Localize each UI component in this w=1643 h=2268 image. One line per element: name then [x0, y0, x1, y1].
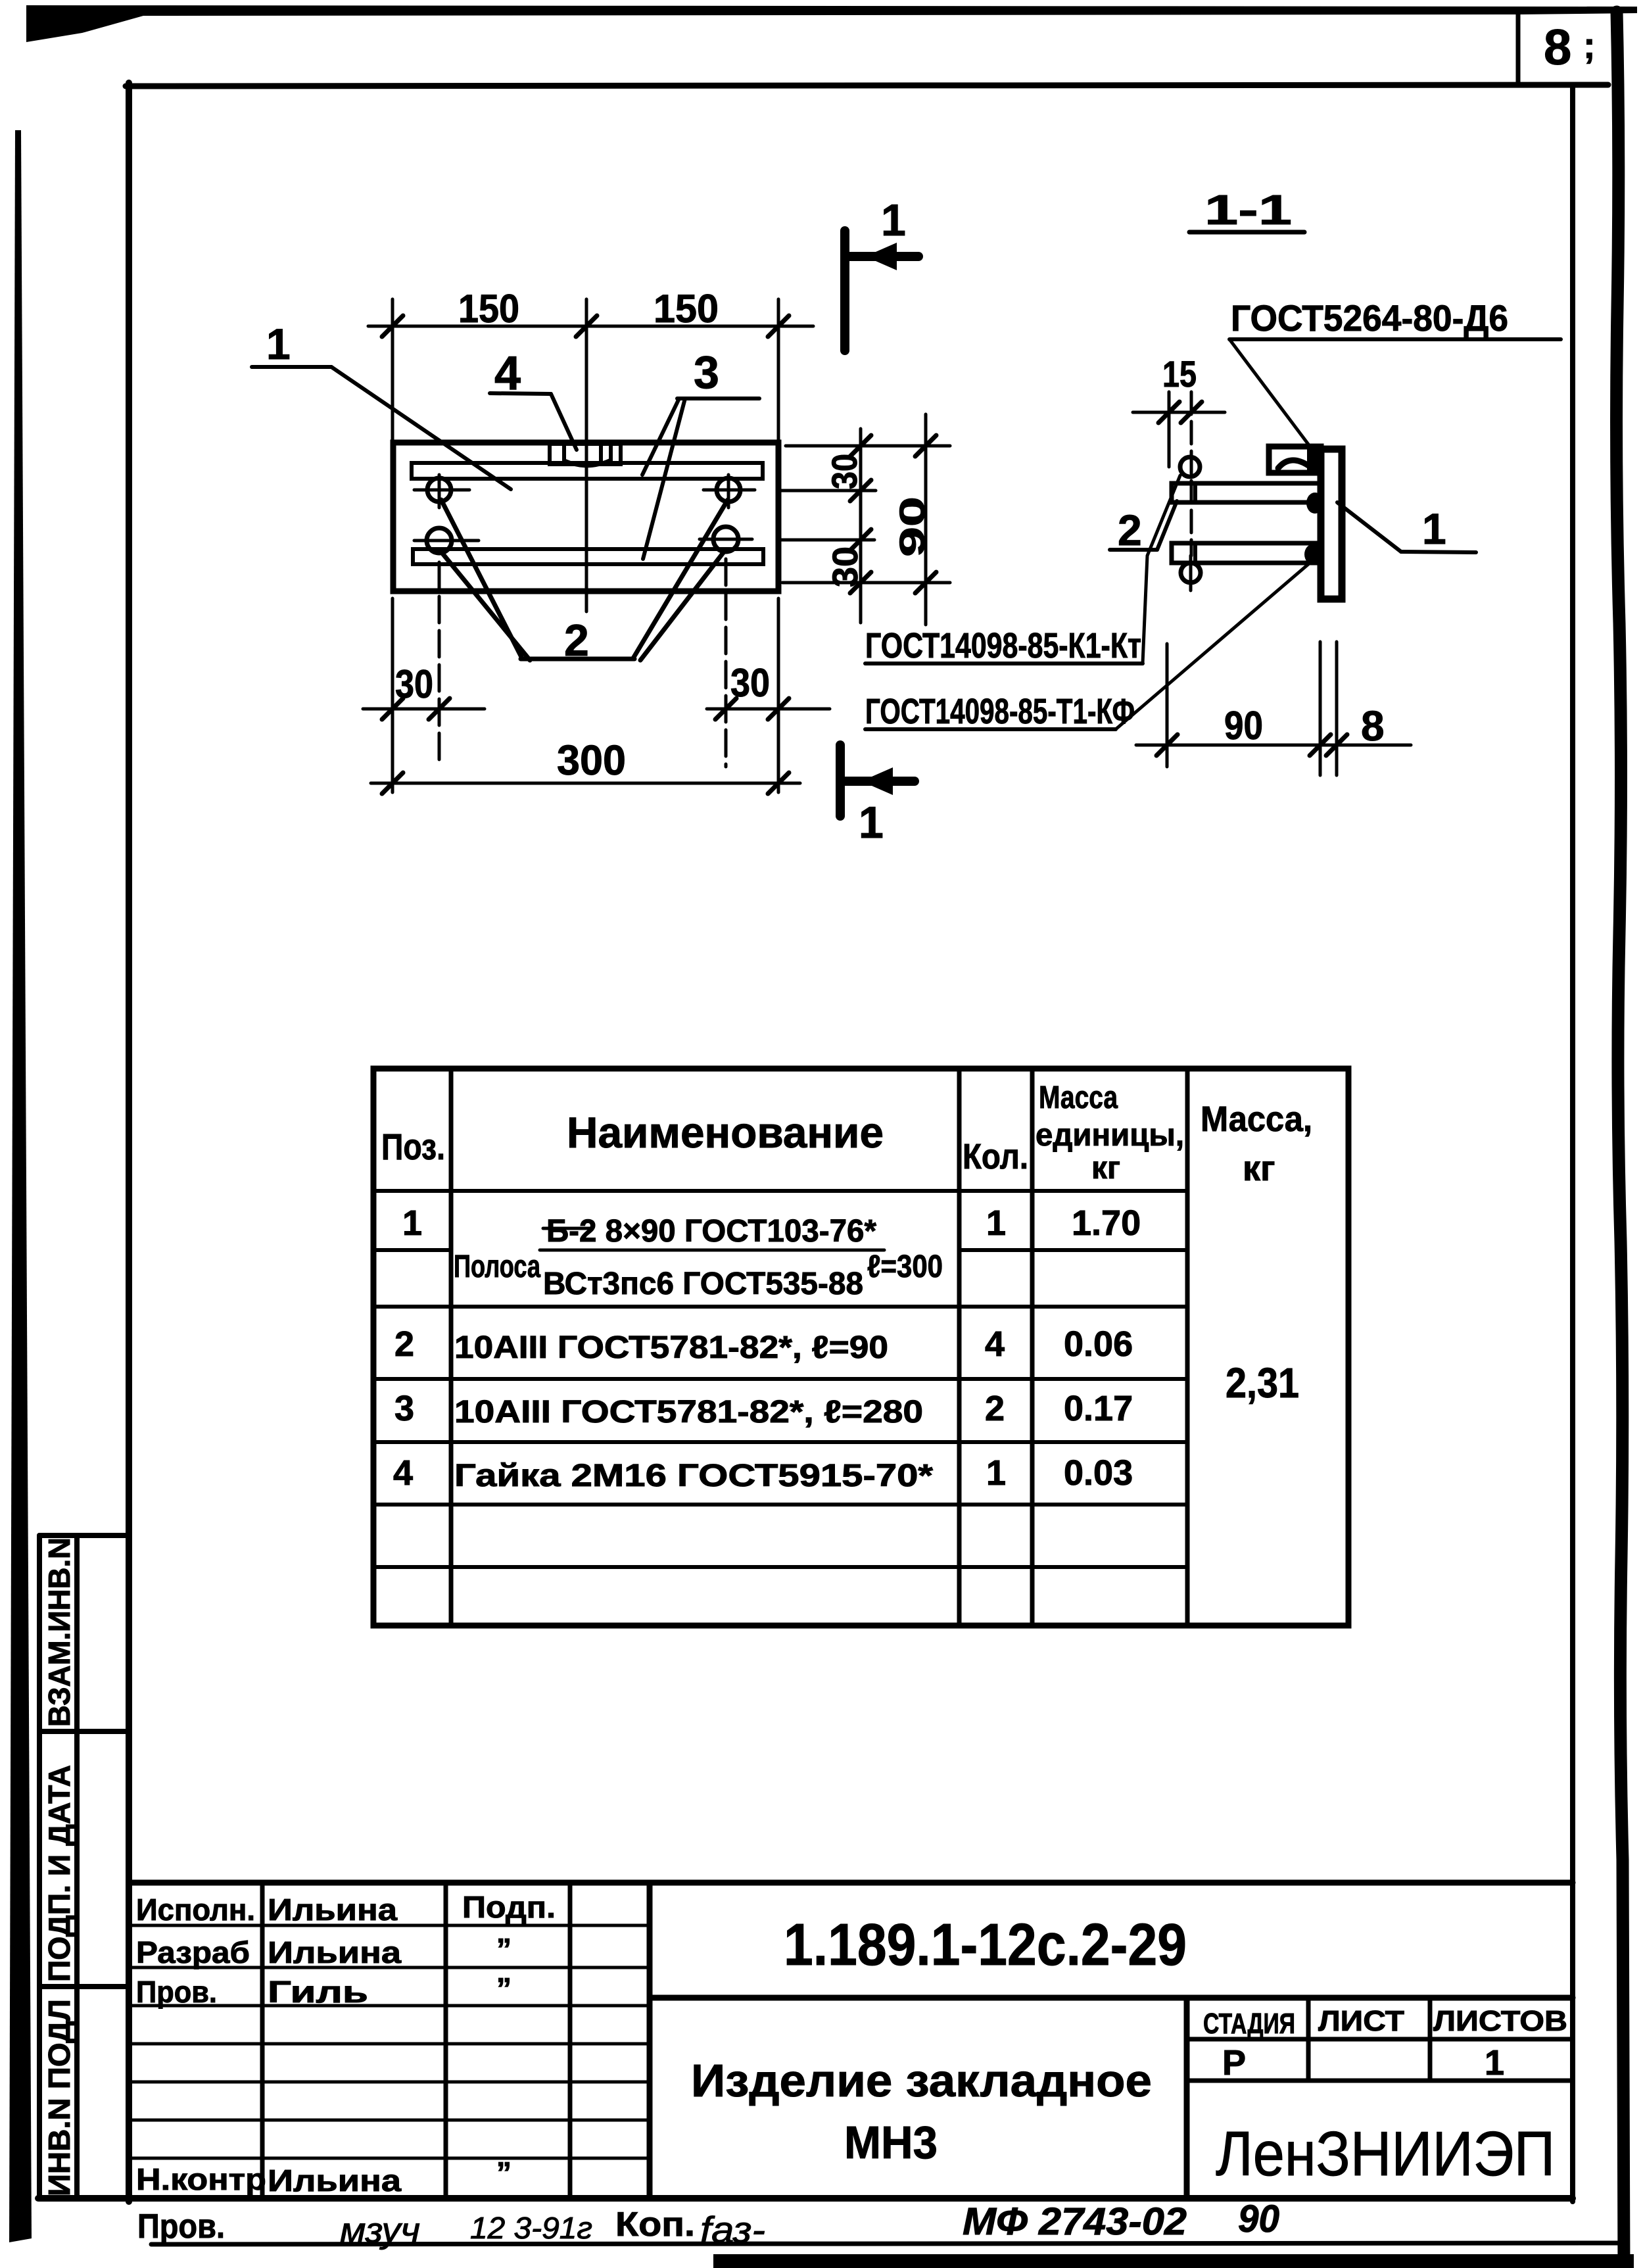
svg-text:30: 30 [730, 661, 770, 705]
svg-text:4: 4 [494, 347, 521, 400]
svg-text:30: 30 [395, 662, 433, 706]
svg-text:2: 2 [394, 1324, 414, 1364]
svg-text:ЛИСТОВ: ЛИСТОВ [1433, 2005, 1567, 2037]
svg-text:2,31: 2,31 [1226, 1359, 1299, 1407]
svg-text:Масса: Масса [1039, 1080, 1118, 1115]
svg-text:мзуч: мзуч [340, 2211, 420, 2250]
svg-text:Гайка 2М16 ГОСТ5915-70*: Гайка 2М16 ГОСТ5915-70* [454, 1459, 933, 1493]
svg-text:8: 8 [1544, 20, 1571, 76]
svg-text:МН3: МН3 [844, 2117, 938, 2168]
svg-text:Ильина: Ильина [268, 2163, 401, 2198]
svg-text:12 3-91г: 12 3-91г [470, 2211, 592, 2245]
rebar pos3 bottom [413, 549, 763, 564]
svg-text:10АIII ГОСТ5781-82*, ℓ=90: 10АIII ГОСТ5781-82*, ℓ=90 [454, 1330, 888, 1365]
svg-text:1: 1 [1485, 2043, 1504, 2083]
svg-text:1: 1 [881, 195, 906, 245]
svg-text:2: 2 [1118, 506, 1142, 554]
svg-text:300: 300 [557, 736, 626, 784]
lifting loop pos2 trapezoid [441, 500, 728, 660]
svg-text:fаз-: fаз- [700, 2209, 765, 2250]
plate pos1 edge [1321, 449, 1342, 599]
plate (pos 1) [393, 443, 778, 591]
right dims 30 90 30 [779, 414, 950, 625]
table verticals [451, 1069, 1187, 1626]
executors table columns [262, 1883, 570, 2198]
label 1 leader [252, 367, 511, 489]
label 4 leader [490, 393, 577, 450]
svg-text:Ильина: Ильина [268, 1935, 401, 1969]
top dim 150+150 [368, 299, 813, 612]
page number separator [1516, 14, 1521, 84]
svg-text:Изделие закладное: Изделие закладное [691, 2055, 1152, 2106]
rod pos2 lower [1172, 543, 1321, 563]
svg-text:8: 8 [1361, 702, 1385, 750]
bottom thin line [151, 2243, 1624, 2244]
name cell divider [1184, 1998, 1190, 2198]
svg-text:1.189.1-12с.2-29: 1.189.1-12с.2-29 [784, 1912, 1187, 1978]
svg-text:3: 3 [394, 1389, 414, 1428]
svg-text:Полоса: Полоса [454, 1249, 540, 1284]
svg-text:Н.контр: Н.контр [136, 2162, 266, 2196]
svg-text:Поз.: Поз. [381, 1126, 445, 1167]
nut pos4 plan detail [550, 444, 621, 466]
svg-text:90: 90 [1238, 2198, 1279, 2240]
svg-text:0.17: 0.17 [1064, 1389, 1133, 1428]
стадия/лист grid [1187, 1998, 1573, 2081]
svg-text:”: ” [496, 1932, 512, 1966]
svg-text:150: 150 [458, 287, 519, 331]
svg-text:10АIII ГОСТ5781-82*, ℓ=280: 10АIII ГОСТ5781-82*, ℓ=280 [454, 1395, 923, 1430]
svg-text:”: ” [496, 2156, 512, 2190]
svg-text:1: 1 [266, 320, 291, 368]
dim 15 [1133, 392, 1225, 556]
frame border [126, 83, 132, 2202]
svg-text:единицы,: единицы, [1036, 1118, 1184, 1153]
svg-text:1-1: 1-1 [1204, 186, 1292, 233]
bottom dims 30 30 300 [363, 559, 830, 792]
svg-text:4: 4 [985, 1324, 1005, 1364]
svg-text:ЛИСТ: ЛИСТ [1318, 2005, 1404, 2037]
svg-text:1.70: 1.70 [1072, 1203, 1141, 1243]
svg-text:Ильина: Ильина [268, 1893, 397, 1927]
svg-text:ГОСТ14098-85-К1-Кт: ГОСТ14098-85-К1-Кт [865, 626, 1141, 665]
svg-text:Масса,: Масса, [1201, 1099, 1312, 1139]
scan top edge bar [26, 5, 1637, 42]
rod bent end circle upper [1180, 457, 1200, 477]
svg-text:ВЗАМ.ИНВ.N: ВЗАМ.ИНВ.N [42, 1537, 76, 1727]
title block top line [129, 1880, 1573, 1886]
svg-text:кг: кг [1243, 1149, 1275, 1188]
svg-text:Коп.: Коп. [615, 2206, 695, 2244]
svg-text:Р: Р [1222, 2043, 1246, 2083]
svg-text:Пров.: Пров. [136, 1975, 217, 2009]
svg-text:150: 150 [654, 287, 719, 331]
scan right edge line [1617, 12, 1624, 2268]
table outer border [373, 1069, 1348, 1626]
svg-text:90: 90 [893, 496, 932, 557]
svg-text:1: 1 [986, 1203, 1006, 1243]
svg-text:ЛенЗНИИЭП: ЛенЗНИИЭП [1216, 2119, 1555, 2189]
section mark top [845, 231, 918, 350]
scan left edge bar [9, 130, 32, 2242]
svg-text:Наименование: Наименование [567, 1108, 884, 1157]
svg-text:Кол.: Кол. [963, 1137, 1028, 1176]
svg-text:1: 1 [1422, 504, 1446, 553]
svg-text:Подп.: Подп. [462, 1890, 556, 1924]
label 2 section [1110, 501, 1177, 550]
svg-text:3: 3 [694, 347, 719, 398]
svg-text:ПОДП. И ДАТА: ПОДП. И ДАТА [42, 1765, 76, 1982]
svg-text:”: ” [496, 1971, 512, 2006]
rod pos2 upper [1172, 483, 1321, 502]
svg-text:ИНВ.N ПОДЛ: ИНВ.N ПОДЛ [42, 1999, 76, 2196]
nut pos4 side [1269, 446, 1321, 473]
svg-text:30: 30 [825, 454, 865, 489]
svg-text:МФ 2743-02: МФ 2743-02 [963, 2200, 1187, 2243]
svg-text:Исполн.: Исполн. [136, 1893, 255, 1927]
dim 90 and 8 [1136, 642, 1411, 775]
label 1 section [1337, 502, 1476, 552]
svg-text:2: 2 [985, 1389, 1005, 1428]
svg-text:2: 2 [564, 615, 589, 665]
rebar pos3 top [412, 463, 763, 479]
svg-text:Гиль: Гиль [268, 1975, 368, 2009]
svg-text:30: 30 [826, 546, 865, 587]
table horizontals [373, 1191, 1187, 1567]
label 3 leader [642, 398, 759, 559]
svg-text:Пров.: Пров. [137, 2208, 225, 2246]
svg-text:4: 4 [393, 1453, 413, 1493]
svg-text:кг: кг [1091, 1151, 1120, 1186]
executors table rows [129, 1925, 650, 2158]
svg-text:1: 1 [402, 1203, 422, 1243]
svg-text:Б-2 8×90 ГОСТ103-76*: Б-2 8×90 ГОСТ103-76* [546, 1214, 876, 1249]
frame bottom extension to left cells [38, 2195, 129, 2202]
svg-text:15: 15 [1162, 353, 1197, 395]
svg-text:ГОСТ5264-80-Д6: ГОСТ5264-80-Д6 [1231, 297, 1508, 339]
svg-text:0.06: 0.06 [1064, 1324, 1133, 1364]
svg-text:ℓ=300: ℓ=300 [867, 1249, 943, 1284]
svg-text:ВСт3пс6 ГОСТ535-88: ВСт3пс6 ГОСТ535-88 [543, 1267, 863, 1301]
svg-text:1: 1 [859, 798, 884, 848]
designation cell divider [647, 1883, 653, 2198]
scan bottom bar [713, 2254, 1634, 2268]
left attribute cells outer [37, 1535, 42, 2198]
section mark bottom [840, 745, 915, 816]
svg-text:;: ; [1583, 24, 1596, 66]
svg-text:ГОСТ14098-85-Т1-КФ: ГОСТ14098-85-Т1-КФ [865, 692, 1135, 731]
rod bent end circle lower [1181, 563, 1201, 583]
svg-text:СТАДИЯ: СТАДИЯ [1203, 2008, 1295, 2040]
svg-text:Разраб: Разраб [136, 1935, 250, 1969]
anchor rod circles pos2 [427, 478, 740, 553]
svg-text:90: 90 [1224, 704, 1263, 748]
weld blobs [1306, 493, 1323, 514]
circle crosshairs [414, 475, 755, 541]
svg-text:0.03: 0.03 [1064, 1453, 1133, 1493]
svg-text:1: 1 [986, 1453, 1006, 1493]
